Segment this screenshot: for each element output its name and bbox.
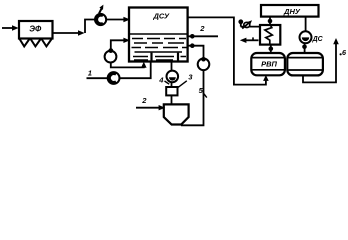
small tick on condensate line — [252, 37, 254, 40]
wire steam line to heater — [241, 26, 261, 28]
svg-text:ДНУ: ДНУ — [283, 7, 301, 16]
liquid dashes — [132, 39, 187, 61]
funnel tank — [164, 104, 189, 124]
drain plug (lollipop) — [240, 23, 242, 26]
second preheater capsule — [287, 53, 323, 75]
pump P1 circle — [105, 51, 117, 63]
fan ДС circle — [300, 31, 312, 43]
fan D1 (smoke exhauster circle) — [95, 14, 106, 25]
air preheater РВП capsule — [251, 53, 285, 75]
wire capsule bottom to stack arrow 6 — [303, 43, 336, 82]
node on ДСУ right edge (upper) — [190, 34, 195, 39]
wire line 1 through fan D2 — [87, 62, 151, 78]
wire fan D1 to ДСУ — [106, 19, 124, 21]
box ДНУ — [261, 5, 319, 17]
wire ЭФ to fan D1 — [53, 32, 79, 34]
control valve circle with arrow — [244, 22, 250, 27]
exhaust arrow above fan D1 — [99, 8, 102, 14]
wire heater bottom to РВП top — [270, 45, 272, 53]
wire ДС to capsule top — [304, 43, 306, 53]
hoppers under ЭФ (three triangles) — [20, 39, 30, 46]
wire input 2 into funnel — [136, 107, 159, 109]
svg-text:4: 4 — [158, 75, 164, 84]
node on ДНУ-heater wire — [268, 19, 273, 24]
node on ДСУ right edge (lower) — [190, 43, 195, 48]
node at pump P1 top — [108, 48, 113, 53]
electrofilter ЭФ box — [19, 21, 53, 39]
internal weir partitions — [152, 53, 179, 62]
svg-text:1: 1 — [88, 69, 92, 78]
wire meter to valve box — [171, 82, 173, 87]
wire input arrow to ЭФ — [2, 27, 14, 29]
svg-text:ДС: ДС — [312, 36, 324, 43]
svg-text:РВП: РВП — [261, 59, 277, 68]
wire ДСУ top to РВП bottom — [189, 17, 266, 84]
wire ДНУ to heater top — [269, 17, 271, 25]
node on heater-РВП wire — [269, 47, 274, 52]
valve box V1 — [166, 87, 177, 95]
wire outlet 2 — [189, 35, 219, 37]
wire funnel to pump P2 to ДСУ right — [181, 46, 204, 126]
pump P2 circle — [198, 59, 210, 71]
svg-text:ДСУ: ДСУ — [152, 11, 170, 20]
wire pump P1 bottom to ДСУ bottom — [111, 63, 144, 68]
fan D2 circle — [108, 72, 120, 84]
svg-text:2: 2 — [141, 96, 147, 105]
svg-text:ЭФ: ЭФ — [29, 24, 42, 33]
meter U4 circle — [167, 71, 179, 83]
wire valve box to funnel — [171, 95, 173, 104]
wire pump P1 top outlet to ДСУ left — [111, 40, 124, 50]
node at pump P2 top — [201, 57, 206, 62]
condensate arrow out of heater — [246, 39, 259, 41]
wire ДНУ to ДС fan — [305, 17, 307, 32]
scrubber ДСУ box — [129, 8, 188, 62]
heater (calorifer) box with coil — [260, 25, 280, 45]
svg-text:2: 2 — [199, 24, 205, 33]
wire ДСУ drain to meter — [171, 62, 173, 71]
node on ДС-capsule wire — [302, 45, 307, 50]
liquid surface line — [130, 33, 188, 35]
